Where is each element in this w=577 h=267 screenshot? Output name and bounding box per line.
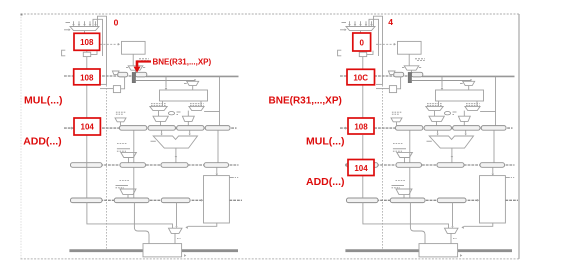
- result bus 2: [345, 249, 512, 252]
- node (dash marks): [139, 59, 149, 61]
- IF/ID instruction latch (dark): [132, 72, 135, 82]
- latch capsule ID/EX b: [424, 126, 451, 131]
- latch capsule IF/ID a: [118, 72, 128, 77]
- latch capsule EX/MEM d: [480, 163, 505, 168]
- ALU U2: [427, 136, 474, 148]
- wire (stage column top): [362, 57, 364, 69]
- node (dash marks): [415, 59, 425, 61]
- wire (load value to WB mux): [185, 223, 216, 229]
- latch capsule ID/EX b: [148, 126, 175, 131]
- ID/EX value box 108: [345, 118, 374, 134]
- latch capsule ID/EX d: [481, 126, 506, 131]
- wire (stage column a): [362, 85, 364, 118]
- register file RF1: [160, 90, 208, 101]
- wire (PC mux input 3): [359, 21, 361, 26]
- latch capsule MEM/WB b: [390, 198, 425, 203]
- wire (dest pass-through EX): [217, 130, 219, 163]
- IF/ID pipeline register bar 1: [64, 75, 239, 77]
- svg-text:ADD(...): ADD(...): [23, 135, 62, 147]
- latch capsule EX/MEM b: [396, 163, 422, 168]
- mux M1H (lower right): [182, 111, 194, 122]
- wire (store data pass): [409, 167, 411, 198]
- mux M2C (small, above IF/ID): [388, 71, 395, 74]
- latch capsule ID/EX a: [396, 126, 423, 131]
- svg-text:108: 108: [354, 122, 368, 131]
- outer frame: [21, 14, 520, 260]
- register PC2 value box 0: [353, 33, 371, 51]
- wire (PC mux input 1): [72, 21, 74, 26]
- wire (ALU result): [175, 148, 177, 163]
- node label 0 (PC mux constant): [114, 18, 119, 28]
- annotation ADD(...) left: [23, 135, 62, 147]
- mux M2B (fetch select): [402, 66, 421, 70]
- latch capsule MEM/WB c: [437, 198, 466, 203]
- wire (ALU input B): [465, 130, 467, 135]
- wire (B operand pass-through): [409, 130, 411, 163]
- mux M1D (above register file): [136, 79, 199, 85]
- node label 4 (PC mux constant): [388, 17, 393, 27]
- wire (PC mux input 4): [89, 21, 91, 26]
- svg-text:104: 104: [81, 123, 95, 132]
- node (bus tap arrow): [184, 254, 186, 257]
- register PC2 clock latch: [359, 50, 373, 56]
- mux M2I (tiny, left of ID/EX): [391, 112, 402, 125]
- wire (register read): [165, 77, 167, 90]
- wire (PC mux left input): [64, 23, 71, 31]
- ID/EX value box 104: [71, 118, 100, 135]
- data memory DM1: [204, 176, 230, 223]
- mux M2K (forward B): [392, 181, 413, 198]
- wire (branch target hook): [93, 19, 103, 56]
- annotation ADD(...) right: [306, 176, 345, 188]
- wire (PC mux left input): [340, 23, 347, 31]
- latch capsule MEM/WB a: [347, 198, 379, 203]
- wire (operands to ID/EX): [437, 121, 465, 125]
- wire (WB select left): [363, 202, 449, 228]
- mux M1L (write-back mux): [169, 228, 183, 233]
- wire (WB select left): [87, 202, 173, 228]
- wire (register read): [441, 77, 443, 90]
- node (bracket left of PC): [62, 50, 66, 56]
- node (port labels right): [466, 104, 480, 106]
- result register WB1: [143, 244, 182, 257]
- svg-text:4: 4: [388, 17, 393, 27]
- svg-text:0: 0: [114, 18, 119, 28]
- mux M1I (tiny, left of ID/EX): [115, 112, 126, 125]
- latch capsule ID/EX c: [453, 126, 480, 131]
- annotation MUL(...) right: [306, 136, 345, 148]
- MEM/WB pipeline register bar 2: [346, 199, 518, 201]
- mux M2F (operand B select): [465, 101, 480, 111]
- node (forward unit cluster): [444, 112, 456, 115]
- wire (PC mux input 3): [83, 21, 85, 26]
- node (memory right stub): [505, 177, 514, 179]
- data memory DM2: [480, 176, 506, 223]
- wire (next-PC hook): [374, 16, 383, 249]
- wire (WB mux output): [175, 233, 181, 244]
- wire (stage column top): [86, 57, 88, 69]
- svg-text:10C: 10C: [353, 74, 368, 83]
- wire (instruction fetch out): [408, 54, 410, 65]
- wire (PC mux input 5): [94, 21, 96, 26]
- ID/EX pipeline register bar 1: [64, 127, 237, 129]
- MEM/WB pipeline register bar 1: [70, 199, 242, 201]
- mux M2H (lower right): [458, 111, 470, 122]
- svg-text:108: 108: [80, 38, 94, 47]
- wire (WB curve to result register): [410, 202, 425, 244]
- register file RF2: [436, 90, 484, 101]
- svg-text:0: 0: [359, 38, 364, 47]
- wire (into IF/ID latch): [134, 70, 136, 72]
- wire (operands to ID/EX): [161, 121, 189, 125]
- wire (WB from MEM/WB): [175, 202, 177, 228]
- node (port labels right): [190, 104, 204, 106]
- IF/ID instruction latch (dark): [408, 72, 411, 82]
- IF/ID value box 10C: [347, 69, 375, 85]
- wire (next-PC hook): [98, 16, 107, 249]
- node (memory right stub): [229, 177, 238, 179]
- latch capsule ID/EX a: [120, 126, 147, 131]
- IF/ID pipeline register bar 2: [340, 75, 515, 77]
- IF/ID value box 108: [74, 69, 100, 85]
- wire (immediate path): [204, 77, 219, 126]
- latch capsule MEM/WB b: [114, 198, 149, 203]
- result register WB2: [419, 244, 458, 257]
- result bus 1: [69, 249, 238, 252]
- wire (PC mux input 2): [78, 21, 80, 26]
- wire (dest pass-through EX): [493, 130, 495, 163]
- wire (B operand pass-through): [133, 130, 135, 163]
- wire (ALU input A): [436, 130, 438, 135]
- wire (PC to instruction memory): [100, 43, 120, 46]
- EX/MEM pipeline register bar 2: [346, 164, 515, 166]
- wire (WB curve to result register): [134, 202, 149, 244]
- node (bracket left of PC): [338, 50, 342, 56]
- latch capsule ID/EX d: [205, 126, 230, 131]
- wire (ALU input A): [160, 130, 162, 135]
- wire (PC mux input 1): [348, 21, 350, 26]
- register NPC1 side latch: [100, 77, 125, 93]
- wire (WB from MEM/WB): [451, 202, 453, 228]
- svg-text:MUL(...): MUL(...): [306, 136, 345, 148]
- latch capsule EX/MEM d: [204, 163, 229, 168]
- latch capsule MEM/WB a: [71, 198, 103, 203]
- svg-text:BNE(R31,...,XP): BNE(R31,...,XP): [269, 96, 342, 107]
- mux M1K (forward B): [116, 181, 137, 198]
- mux M1J (forward A): [117, 144, 136, 163]
- instruction memory IM1: [122, 41, 146, 54]
- annotation arrow BNE into IF/ID latch: [134, 60, 152, 72]
- wire (PC mux input 4): [365, 21, 367, 26]
- annotation BNE(R31,...,XP) left: [153, 57, 212, 66]
- mux M2D (above register file): [412, 79, 475, 85]
- wire (into data memory left): [477, 199, 479, 202]
- latch capsule IF/ID b: [411, 72, 423, 77]
- mux M1A (PC source mux): [70, 27, 99, 34]
- mux M1E (operand A select): [150, 101, 167, 111]
- svg-text:MUL(...): MUL(...): [24, 94, 63, 106]
- node (bus tap arrow): [460, 254, 462, 257]
- annotation MUL(...) left: [24, 94, 63, 106]
- svg-text:BNE(R31,...,XP): BNE(R31,...,XP): [153, 57, 212, 66]
- latch capsule IF/ID b: [135, 72, 147, 77]
- register NPC2 side latch: [376, 77, 401, 93]
- mux M1B (fetch select): [126, 66, 145, 70]
- latch capsule EX/MEM c: [161, 163, 188, 168]
- annotation BNE(R31,...,XP) right: [269, 96, 342, 107]
- wire (address into data memory): [492, 167, 494, 175]
- wire (instruction fetch out): [132, 54, 134, 65]
- register PC1 clock latch: [83, 50, 97, 56]
- mux M2A (PC source mux): [346, 27, 375, 34]
- svg-text:ADD(...): ADD(...): [306, 176, 345, 188]
- latch capsule EX/MEM a: [71, 163, 103, 168]
- wire (PC mux input 5): [370, 21, 372, 26]
- mux M2G (lower left): [429, 111, 444, 122]
- latch capsule ID/EX c: [177, 126, 204, 131]
- wire (stage column b): [362, 135, 364, 198]
- mux M2J (forward A): [393, 144, 413, 163]
- wire (ALU result): [451, 148, 453, 163]
- mux M1F (operand B select): [189, 101, 204, 111]
- wire (mux to register file): [468, 86, 470, 90]
- ALU U1: [151, 136, 198, 148]
- node (port labels left): [151, 104, 166, 106]
- wire (store data pass): [133, 167, 135, 198]
- mux M1C (small, above IF/ID): [112, 71, 119, 74]
- register PC1 value box 108: [74, 33, 100, 50]
- svg-text:108: 108: [80, 73, 94, 82]
- latch capsule EX/MEM a: [347, 163, 379, 168]
- wire (address into data memory): [216, 167, 218, 175]
- latch capsule IF/ID a: [394, 72, 404, 77]
- latch capsule MEM/WB c: [161, 198, 190, 203]
- EX/MEM pipeline register bar 1: [70, 164, 239, 166]
- wire (mux to register file): [192, 86, 194, 90]
- wire (stage column b): [86, 135, 88, 198]
- instruction memory IM2: [398, 41, 422, 54]
- latch capsule EX/MEM b: [120, 163, 146, 168]
- wire (into data memory left): [201, 199, 203, 202]
- wire (WB mux output): [451, 233, 457, 244]
- wire (immediate path): [480, 77, 495, 126]
- node (port labels left): [427, 104, 442, 106]
- mux M2L (write-back mux): [445, 228, 459, 233]
- mux M2E (operand A select): [426, 101, 443, 111]
- wire (PC mux input 2): [354, 21, 356, 26]
- latch capsule EX/MEM c: [437, 163, 464, 168]
- node (forward unit cluster): [168, 112, 180, 115]
- wire (stage column a): [86, 85, 88, 118]
- ID/EX pipeline register bar 2: [340, 127, 513, 129]
- wire (PC to instruction memory): [376, 43, 396, 46]
- mux M1G (lower left): [153, 111, 168, 122]
- wire (ALU input B): [189, 130, 191, 135]
- EX/MEM value box 104: [345, 160, 374, 176]
- wire (into IF/ID latch): [410, 70, 412, 72]
- wire (branch target hook): [369, 19, 379, 56]
- svg-text:104: 104: [354, 164, 368, 173]
- wire (load value to WB mux): [461, 223, 492, 229]
